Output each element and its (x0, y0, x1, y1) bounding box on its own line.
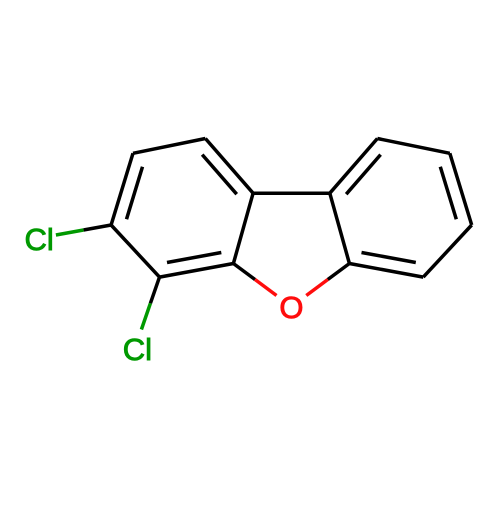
double bond C9b=C1 (205, 139, 253, 194)
bond C7-C6 (423, 225, 471, 277)
bond C4-Cl (150, 277, 159, 303)
bond C5a-O (328, 264, 350, 280)
double bond C6=C5a (349, 264, 423, 278)
double bond C8=C7 (450, 153, 472, 225)
svg-text:Cl: Cl (25, 222, 54, 257)
bond C9-C8 (377, 139, 449, 154)
double bond C2=C3 (111, 153, 133, 225)
bond C3-Cl (84, 225, 112, 230)
svg-text:Cl: Cl (123, 332, 152, 367)
bond C1-C2 (133, 139, 205, 154)
svg-text:O: O (279, 290, 303, 325)
double bond C9a=C9 (330, 139, 378, 194)
bond C4a-C9b (fusion) (233, 193, 253, 263)
double bond C4=C4a (160, 264, 234, 278)
bond C4a-O (233, 264, 255, 280)
bond C3-C4 (111, 225, 159, 277)
bond C9a-C5a (fusion) (330, 193, 350, 263)
bond C9b-C9a (biaryl) (253, 191, 330, 195)
